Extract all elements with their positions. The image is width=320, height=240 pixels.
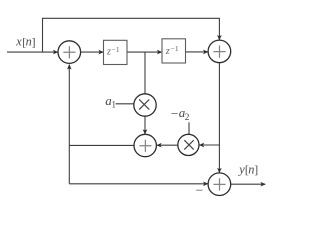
svg-text:−: − xyxy=(171,106,179,121)
svg-text:−1: −1 xyxy=(111,45,119,54)
svg-text:z: z xyxy=(106,46,111,57)
svg-text:]: ] xyxy=(254,163,258,177)
svg-text:]: ] xyxy=(32,35,36,49)
svg-text:2: 2 xyxy=(185,113,190,123)
svg-text:z: z xyxy=(165,46,170,57)
svg-text:−: − xyxy=(196,183,204,198)
svg-text:1: 1 xyxy=(111,100,116,110)
svg-text:x: x xyxy=(15,35,22,49)
svg-text:−1: −1 xyxy=(170,44,178,53)
